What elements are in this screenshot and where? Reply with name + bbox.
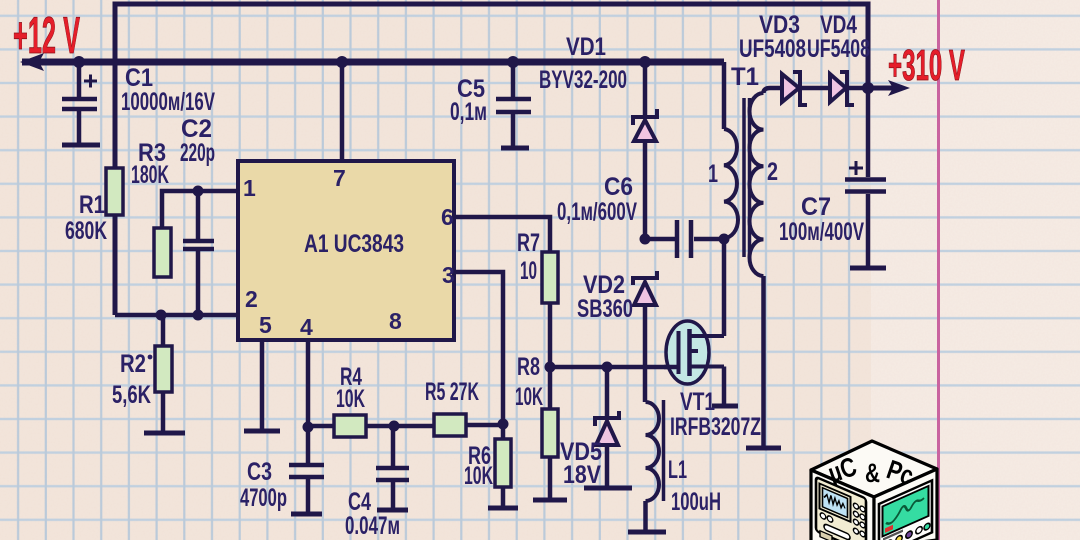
svg-text:R8: R8 <box>517 353 540 381</box>
svg-text:+310 V: +310 V <box>888 41 965 90</box>
svg-text:C6: C6 <box>604 173 633 201</box>
svg-text:220p: 220p <box>180 139 215 167</box>
svg-text:100м/400V: 100м/400V <box>779 218 864 246</box>
svg-text:180K: 180K <box>131 161 169 189</box>
svg-text:UF5408: UF5408 <box>739 35 806 63</box>
svg-text:10K: 10K <box>464 462 493 490</box>
svg-text:10: 10 <box>520 257 537 285</box>
svg-text:&: & <box>865 458 880 488</box>
svg-text:3: 3 <box>442 262 455 288</box>
svg-text:R5 27K: R5 27K <box>425 378 479 406</box>
svg-text:18V: 18V <box>563 461 601 489</box>
svg-text:4: 4 <box>300 314 313 340</box>
svg-text:10000м/16V: 10000м/16V <box>121 88 215 116</box>
svg-text:C7: C7 <box>801 193 831 221</box>
svg-text:10K: 10K <box>515 383 543 411</box>
svg-text:7: 7 <box>333 165 346 191</box>
svg-text:+12 V: +12 V <box>13 7 80 65</box>
svg-text:R7: R7 <box>517 229 540 257</box>
svg-text:T1: T1 <box>731 63 759 91</box>
svg-text:5: 5 <box>259 312 272 338</box>
svg-text:IRFB3207Z: IRFB3207Z <box>670 413 761 441</box>
svg-text:10K: 10K <box>336 385 365 413</box>
svg-text:VT1: VT1 <box>680 388 715 416</box>
svg-text:1: 1 <box>243 175 256 201</box>
svg-text:0,1м/600V: 0,1м/600V <box>557 198 637 226</box>
svg-text:BYV32-200: BYV32-200 <box>539 66 627 94</box>
svg-text:2: 2 <box>245 286 258 312</box>
svg-text:6: 6 <box>441 204 454 230</box>
svg-text:4700p: 4700p <box>240 484 287 512</box>
svg-text:R1: R1 <box>79 191 105 219</box>
svg-text:1: 1 <box>708 160 718 188</box>
svg-text:C3: C3 <box>247 458 272 486</box>
svg-text:VD1: VD1 <box>566 33 606 61</box>
svg-text:100uH: 100uH <box>671 488 721 516</box>
svg-text:A1 UC3843: A1 UC3843 <box>304 230 404 258</box>
svg-text:R2: R2 <box>120 350 146 378</box>
svg-text:0.047м: 0.047м <box>345 512 400 540</box>
svg-text:680K: 680K <box>65 217 107 245</box>
svg-text:5,6K: 5,6K <box>112 381 151 409</box>
svg-text:L1: L1 <box>668 456 687 484</box>
svg-text:2: 2 <box>767 158 778 186</box>
svg-text:0,1м: 0,1м <box>450 98 487 126</box>
svg-text:UF5408: UF5408 <box>807 35 870 63</box>
svg-text:SB360: SB360 <box>577 295 633 323</box>
svg-text:8: 8 <box>389 308 402 334</box>
